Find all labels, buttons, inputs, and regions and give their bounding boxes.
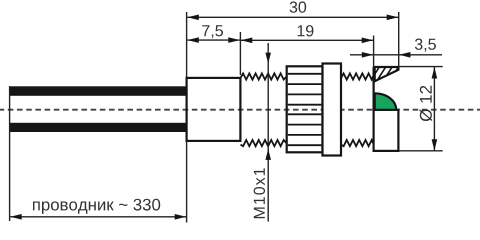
wire conductor bottom bar xyxy=(10,123,187,132)
wire conductor top bar xyxy=(10,86,187,96)
thread section 1 top zigzag xyxy=(241,73,287,79)
dimension 7,5 line xyxy=(187,37,240,43)
wire length dimension line xyxy=(10,214,186,220)
extension line x=373.6 upper xyxy=(373,36,375,68)
knurl ribs xyxy=(288,74,322,145)
extension line x=240 xyxy=(239,32,241,75)
thread section 2 top zigzag xyxy=(341,73,373,79)
extension line left (x=186.6 top) xyxy=(186,12,188,77)
label 3,5 xyxy=(415,39,436,52)
dimension d12 extension bottom xyxy=(399,150,443,152)
label 7,5 xyxy=(202,25,223,38)
head bottom half rectangle (exterior view) xyxy=(374,110,399,151)
bezel lip cross-section (hatched) xyxy=(369,63,408,84)
dimension 3,5 line with outside arrows xyxy=(350,52,442,58)
dimension d12 vertical line xyxy=(432,67,438,151)
thread section 2 bottom zigzag xyxy=(341,140,373,146)
knurled nut section xyxy=(287,66,323,152)
label M10x1 (rotated) xyxy=(254,168,265,218)
dimension 19 line xyxy=(241,38,373,44)
extension line left (x=186.6 bottom, to wire dim) xyxy=(186,141,188,223)
label 30 xyxy=(290,1,307,12)
extension line x=398.7 xyxy=(398,12,400,67)
LED lens dome (green, section top half) xyxy=(375,93,397,110)
label 19 xyxy=(298,25,314,36)
centerline (axis) xyxy=(0,109,480,111)
label diameter 12 (rotated) xyxy=(420,86,433,121)
thread section 1 bottom zigzag xyxy=(241,140,287,146)
flange collar xyxy=(323,64,342,156)
dimension d12 extension top xyxy=(399,66,443,68)
wire dim left extension line xyxy=(9,86,11,221)
body right edge line xyxy=(373,67,375,151)
rear housing body xyxy=(187,78,241,141)
M10x1 leader line xyxy=(265,43,271,222)
label wire length xyxy=(33,199,160,214)
dimension 30 line xyxy=(187,15,398,21)
